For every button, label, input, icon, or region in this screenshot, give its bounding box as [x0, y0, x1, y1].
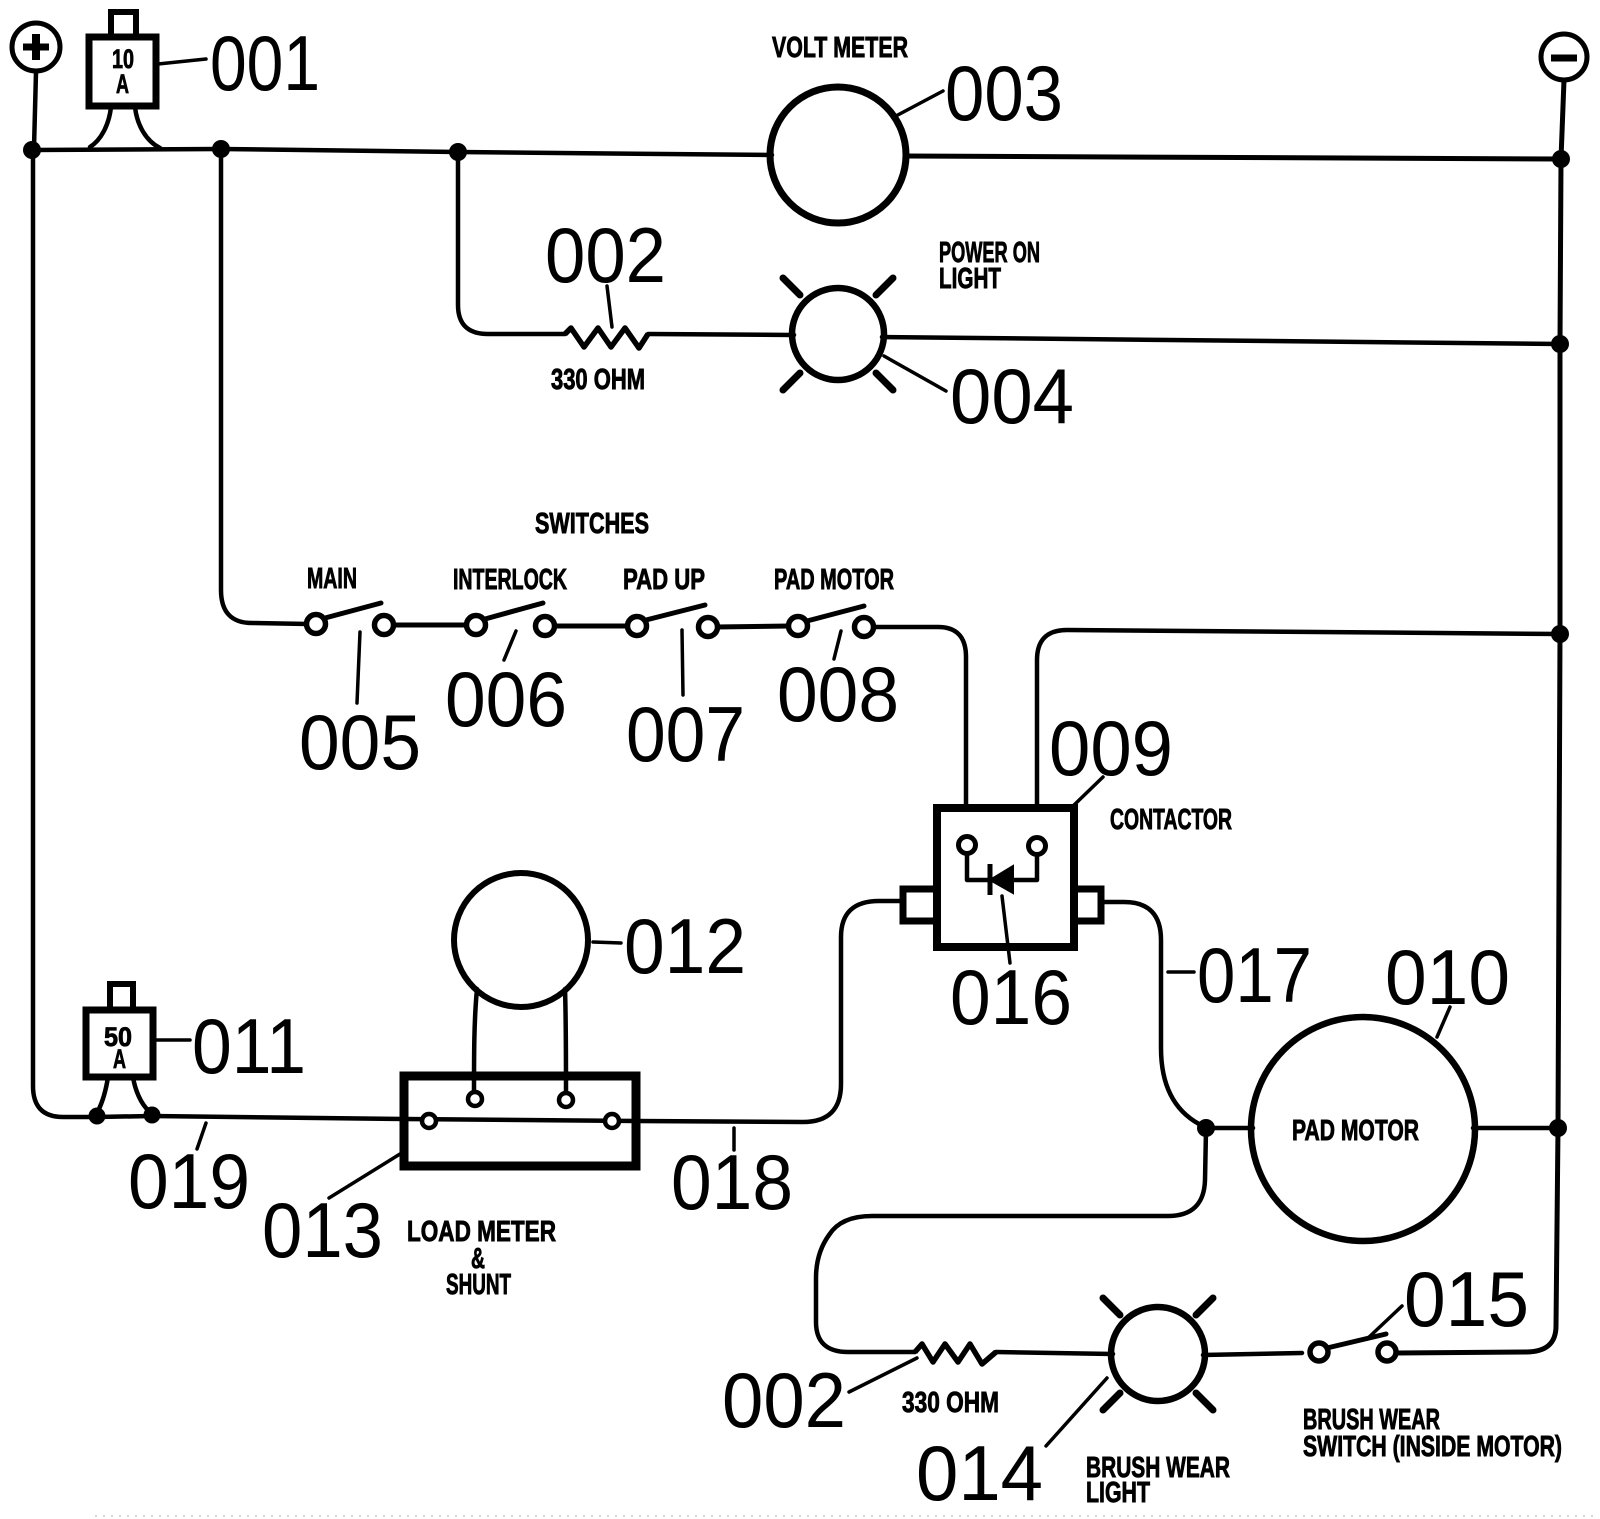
wire switch branch from node C down to MAIN switch	[221, 149, 308, 624]
wire pad motor node to pad motor	[1207, 1126, 1253, 1131]
switch 007 PAD UP contacts	[628, 617, 647, 636]
svg-text:012: 012	[624, 902, 746, 990]
wire MAIN switch to INTERLOCK switch	[392, 623, 468, 628]
wire through load meter shunt box	[404, 1119, 636, 1121]
junction fuse 011 left	[89, 1108, 106, 1125]
svg-text:009: 009	[1049, 704, 1173, 792]
svg-text:002: 002	[722, 1356, 846, 1444]
wire fuse 001 left lead	[90, 107, 111, 147]
svg-text:004: 004	[950, 352, 1074, 440]
wire INTERLOCK switch to PAD UP switch	[553, 624, 629, 629]
load meter 012	[454, 873, 588, 1007]
leader 010	[1437, 1007, 1450, 1037]
wire contactor internal right terminal to diode	[1014, 855, 1037, 880]
leader 007	[682, 630, 683, 695]
load meter box terminals	[468, 1092, 482, 1106]
wire contactor internal left terminal to diode	[967, 854, 988, 880]
leader 019	[197, 1123, 206, 1149]
svg-text:MAIN: MAIN	[307, 563, 357, 595]
wire left rail from node A down to fuse 011 row	[33, 150, 404, 1119]
pad motor 010	[1251, 1017, 1475, 1241]
wire pad motor to right rail	[1473, 1126, 1558, 1131]
svg-text:LIGHT: LIGHT	[1086, 1477, 1150, 1509]
wire from pad motor node down and left to resistor 002 bottom	[816, 1130, 1206, 1352]
contactor 009	[903, 808, 1101, 947]
switch 015 brush wear contacts	[1310, 1343, 1328, 1361]
svg-text:PAD MOTOR: PAD MOTOR	[1292, 1115, 1419, 1147]
svg-text:003: 003	[945, 49, 1063, 137]
svg-text:007: 007	[626, 690, 745, 778]
svg-text:018: 018	[671, 1138, 793, 1226]
leader 008	[834, 631, 841, 659]
load meter and shunt box 013	[404, 1076, 636, 1166]
leader 003	[894, 91, 943, 117]
svg-text:PAD MOTOR: PAD MOTOR	[774, 564, 894, 596]
switch 007 PAD UP blade	[646, 605, 705, 620]
wire from power on light to right rail	[882, 337, 1560, 344]
wire from resistor 002 to power on light	[648, 334, 794, 335]
junction node B	[449, 143, 467, 161]
wire brush wear light to brush wear switch	[1203, 1353, 1302, 1355]
leader 013	[329, 1154, 400, 1198]
svg-text:CONTACTOR: CONTACTOR	[1110, 804, 1232, 836]
svg-text:019: 019	[128, 1137, 250, 1225]
svg-text:008: 008	[777, 650, 899, 738]
leader 001	[158, 59, 206, 64]
wire contactor coil terminal up and right to right rail	[1037, 630, 1560, 836]
wire resistor 002 bottom to brush wear light	[996, 1352, 1113, 1354]
svg-text:013: 013	[262, 1186, 383, 1274]
svg-text:011: 011	[192, 1002, 306, 1090]
leader 011	[157, 1038, 190, 1042]
wire PAD UP switch to PAD MOTOR switch	[716, 626, 790, 627]
svg-text:SWITCHES: SWITCHES	[535, 508, 649, 540]
svg-text:A: A	[113, 1044, 126, 1074]
svg-text:001: 001	[210, 19, 320, 107]
terminal - negative	[1541, 34, 1587, 80]
wire fuse 001 right lead	[135, 107, 160, 148]
fuse 011 50A	[86, 984, 153, 1077]
svg-text:014: 014	[916, 1429, 1043, 1517]
svg-text:005: 005	[299, 698, 421, 786]
svg-text:330 OHM: 330 OHM	[551, 364, 645, 396]
fuse 001 10A	[89, 12, 156, 106]
leader 006	[504, 631, 516, 660]
switch 005 MAIN contacts	[307, 615, 326, 634]
wire power-on branch from node B down and left to resistor 002	[458, 152, 565, 334]
svg-text:LIGHT: LIGHT	[939, 263, 1001, 295]
junction right rail contactor	[1551, 625, 1569, 643]
wire fuse 011 left lead	[98, 1077, 108, 1111]
svg-text:SWITCH (INSIDE MOTOR): SWITCH (INSIDE MOTOR)	[1303, 1431, 1562, 1463]
svg-text:015: 015	[1404, 1255, 1529, 1343]
junction pad motor right	[1549, 1119, 1567, 1137]
leader 016	[1002, 896, 1010, 963]
switch 008 PAD MOTOR blade	[807, 606, 864, 621]
wire top rail from volt meter to right rail	[905, 156, 1561, 159]
leader 018	[732, 1128, 736, 1150]
junction right rail power light	[1551, 335, 1569, 353]
svg-text:017: 017	[1197, 931, 1312, 1019]
wire fuse 011 right lead	[133, 1077, 149, 1111]
svg-text:VOLT METER: VOLT METER	[772, 32, 908, 64]
leader 004	[884, 356, 946, 391]
svg-text:SHUNT: SHUNT	[446, 1269, 511, 1301]
leader 012	[593, 942, 621, 943]
wire top rail from node A to volt meter	[32, 149, 772, 155]
svg-text:010: 010	[1385, 933, 1510, 1021]
switch 005 MAIN blade	[325, 603, 381, 618]
svg-text:016: 016	[950, 953, 1072, 1041]
resistor 002 (330 OHM, top)	[565, 328, 648, 348]
svg-text:A: A	[116, 69, 129, 99]
svg-text:006: 006	[445, 655, 567, 743]
svg-text:330 OHM: 330 OHM	[902, 1387, 999, 1419]
contactor internal wires to diode 016	[967, 854, 988, 880]
leader 002 top	[607, 286, 612, 327]
leader 009	[1073, 777, 1103, 806]
switch 006 INTERLOCK blade	[485, 603, 543, 619]
junction fuse 011 right	[144, 1107, 161, 1124]
wire PAD MOTOR switch down to contactor coil terminal	[872, 627, 966, 836]
faint page edge dotted line	[95, 1515, 1595, 1517]
brush wear light 014	[1103, 1298, 1213, 1410]
wire load meter 012 left lead	[474, 989, 477, 1092]
wire 018 from load meter box to contactor left tab	[636, 901, 903, 1122]
switch 006 INTERLOCK contacts	[467, 616, 486, 635]
svg-text:PAD UP: PAD UP	[623, 564, 705, 596]
wire right rail from - terminal down to brush wear switch	[1396, 80, 1564, 1353]
wire 017 from contactor right tab down to pad motor node	[1101, 902, 1207, 1128]
power on light 004	[783, 278, 893, 390]
resistor 002 (330 OHM, bottom)	[915, 1344, 996, 1364]
contactor coil terminals	[959, 837, 976, 854]
wire from + terminal down to node A	[34, 72, 36, 148]
junction node A	[23, 141, 41, 159]
svg-text:INTERLOCK: INTERLOCK	[453, 564, 567, 596]
leader 015	[1367, 1306, 1402, 1339]
switch 015 brush wear blade	[1327, 1334, 1386, 1348]
junction pad motor left	[1197, 1119, 1215, 1137]
leader 005	[357, 632, 360, 703]
switch 008 PAD MOTOR contacts	[789, 617, 808, 636]
terminal + positive	[12, 23, 60, 71]
leader 002 bottom	[849, 1358, 917, 1392]
junction right rail top	[1552, 150, 1570, 168]
leader 017	[1168, 970, 1194, 974]
junction node C	[212, 140, 230, 158]
volt meter 003	[770, 87, 906, 223]
wire load meter 012 right lead	[565, 989, 566, 1092]
svg-text:002: 002	[545, 211, 666, 299]
diode 016	[990, 864, 1013, 895]
leader 014	[1046, 1378, 1107, 1446]
